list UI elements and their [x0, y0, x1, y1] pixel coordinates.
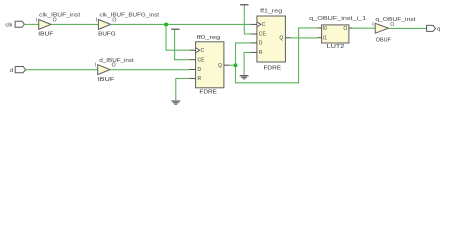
junction clk net — [164, 23, 167, 26]
pin stub D — [189, 69, 195, 71]
svg-text:I0: I0 — [323, 26, 327, 32]
wire LUT2 O to OBUF — [353, 27, 376, 29]
svg-text:CE: CE — [259, 32, 267, 38]
pin stub C — [251, 23, 257, 25]
svg-text:C: C — [262, 22, 266, 28]
pin stub R — [189, 77, 195, 79]
pin stub O — [349, 27, 353, 29]
svg-text:IBUF: IBUF — [38, 31, 54, 37]
clock marker ff1 C — [257, 22, 261, 27]
wire OBUF to q port — [389, 27, 427, 29]
svg-text:R: R — [198, 76, 202, 82]
buffer clk_IBUF_BUFG_inst (BUFG) — [96, 12, 160, 37]
svg-text:d_IBUF_inst: d_IBUF_inst — [99, 58, 134, 64]
input port clk — [5, 21, 24, 28]
svg-text:I1: I1 — [323, 36, 327, 42]
svg-text:Q: Q — [279, 36, 283, 42]
svg-text:Q: Q — [218, 63, 222, 69]
svg-text:q: q — [437, 27, 440, 33]
buffer clk_IBUF_inst (IBUF) — [36, 13, 81, 38]
svg-text:O: O — [343, 26, 347, 32]
pin stub Q — [285, 37, 291, 39]
svg-text:D: D — [198, 67, 202, 73]
junction ff0 Q net — [234, 64, 237, 67]
svg-text:FDRE: FDRE — [264, 66, 282, 72]
ground for ff1 R — [240, 52, 251, 79]
svg-text:d: d — [10, 68, 13, 74]
svg-text:ff1_reg: ff1_reg — [260, 9, 282, 15]
net ff1 Q to LUT2 I1 — [291, 37, 317, 39]
svg-text:BUFG: BUFG — [98, 32, 116, 38]
wire junction down and right to LUT2 I0 — [236, 28, 318, 83]
wire d port to d IBUF — [26, 69, 98, 71]
svg-text:q_OBUF_inst_i_1: q_OBUF_inst_i_1 — [309, 16, 366, 22]
power VCC for ff1 CE — [240, 4, 251, 34]
wire IBUF to BUFG — [51, 23, 98, 25]
svg-text:clk_IBUF_BUFG_inst: clk_IBUF_BUFG_inst — [100, 12, 160, 18]
svg-text:I: I — [96, 18, 97, 24]
svg-text:I: I — [36, 18, 37, 24]
buffer q_OBUF_inst (OBUF) — [372, 17, 416, 44]
net ff0 Q to junction — [230, 64, 236, 66]
pin stub CE — [251, 33, 257, 35]
pin stub I0 — [317, 27, 321, 29]
svg-text:q_OBUF_inst: q_OBUF_inst — [375, 17, 415, 23]
svg-text:LUT2: LUT2 — [327, 44, 345, 50]
wire junction down to ff0 C — [166, 24, 189, 50]
svg-text:R: R — [259, 50, 263, 56]
svg-text:OBUF: OBUF — [376, 38, 391, 44]
output port q — [427, 25, 441, 32]
wire junction up to ff1 D — [236, 43, 251, 65]
pin stub I1 — [317, 37, 321, 39]
svg-text:FDRE: FDRE — [199, 89, 217, 95]
clock marker ff0 C — [196, 48, 200, 53]
wire BUFG output to ff1 C (clk net) — [111, 23, 251, 25]
pin stub D — [251, 42, 257, 44]
svg-text:ff0_reg: ff0_reg — [197, 35, 221, 41]
svg-text:clk: clk — [5, 23, 12, 29]
svg-text:I: I — [372, 22, 373, 28]
pin stub R — [251, 51, 257, 53]
input port d — [10, 67, 26, 74]
svg-text:IBUF: IBUF — [98, 77, 115, 83]
pin stub C — [189, 49, 195, 51]
wire d IBUF output to ff0 D — [110, 69, 189, 71]
power VCC for ff0 CE — [171, 29, 189, 60]
svg-text:C: C — [201, 48, 205, 54]
svg-text:I: I — [95, 63, 96, 69]
svg-text:clk_IBUF_inst: clk_IBUF_inst — [39, 13, 80, 19]
svg-text:CE: CE — [198, 57, 206, 63]
wire clk port to IBUF — [24, 23, 38, 25]
flip-flop ff1_reg (FDRE) — [251, 9, 291, 72]
svg-text:D: D — [259, 41, 263, 47]
flip-flop ff0_reg (FDRE) — [189, 35, 229, 95]
ground for ff0 R — [171, 78, 189, 104]
LUT q_OBUF_inst_i_1 (LUT2) — [309, 16, 366, 50]
pin stub Q — [224, 64, 230, 66]
pin stub CE — [189, 59, 195, 61]
buffer d_IBUF_inst (IBUF) — [95, 58, 134, 83]
